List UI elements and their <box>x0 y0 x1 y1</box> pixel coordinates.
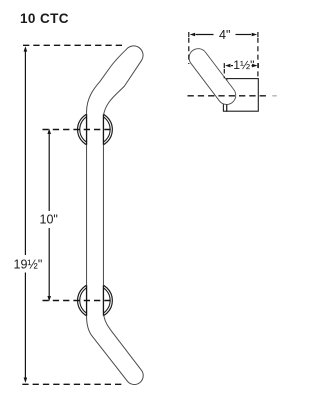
arrowhead down 10 <box>47 296 51 301</box>
dashed centerline through top post <box>43 129 115 131</box>
extension dashed line below 1 1/2 inch <box>223 69 225 78</box>
arrowhead up 19 1/2 <box>24 46 28 51</box>
flange chord lines at top post <box>87 114 104 144</box>
handle tube outline (front view) <box>87 46 144 385</box>
mounting post flange bottom (front view) <box>78 283 113 318</box>
svg-text:19½": 19½" <box>14 258 43 272</box>
dimension line 19 1/2 inch <box>24 52 26 378</box>
handle tube outline (side view) <box>198 58 226 96</box>
dashed extension line at handle top <box>23 44 124 46</box>
arrowhead left 1 1/2 inch <box>225 64 230 68</box>
extension dashed line right of 4 inch <box>257 38 259 78</box>
svg-text:4": 4" <box>219 28 230 42</box>
arrowhead left 4 inch <box>190 33 195 37</box>
arrowhead down 19 1/2 <box>24 378 28 383</box>
extension dashed line left of 4 inch <box>188 38 190 64</box>
arrowhead up 10 <box>47 129 51 134</box>
dimension 1 1/2 inch <box>224 63 258 68</box>
dashed centerline through bottom post <box>43 300 115 302</box>
arrowhead right 4 inch <box>252 33 257 37</box>
wall flange plate (side view) <box>223 79 226 111</box>
dashed extension line at handle bottom <box>22 383 123 385</box>
mounting post body (side view) <box>227 79 258 112</box>
mounting post flange top (front view) <box>78 112 113 147</box>
svg-text:10 CTC: 10 CTC <box>20 11 69 26</box>
dashed centerline (side view) <box>188 95 267 97</box>
flange chord lines at bottom post <box>87 285 104 315</box>
arrowhead right 1 1/2 inch <box>252 64 257 68</box>
svg-text:1½": 1½" <box>233 58 254 72</box>
dimension line 10 inch <box>48 134 50 296</box>
faded dash at right end of centerline <box>272 95 277 97</box>
dimension 4 inch <box>189 32 258 37</box>
svg-text:10": 10" <box>40 213 58 227</box>
handle tube white body (side view) <box>198 58 226 96</box>
